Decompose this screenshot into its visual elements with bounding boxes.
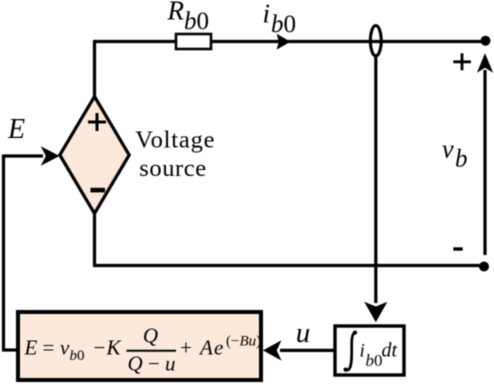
svg-text:dt: dt [382,340,398,362]
wire [93,264,484,267]
plus terminal [453,53,471,70]
voltage source U1 [60,97,129,214]
svg-text:e: e [214,336,223,360]
current probe ellipse [370,26,381,56]
svg-text:Q: Q [143,324,158,348]
u signal arrow [280,349,334,352]
junction node bottom right [479,262,489,272]
wire [2,348,18,351]
svg-text:source: source [139,155,207,182]
integrator input arrow [374,56,377,303]
wire [93,42,96,98]
svg-text:+: + [180,336,192,360]
resistor Rb0 [176,34,211,49]
svg-text:(−Bu): (−Bu) [226,334,261,350]
svg-text:b0: b0 [366,351,383,370]
plus mark [88,113,106,131]
svg-text:A: A [198,336,213,360]
integrator text [344,331,398,372]
junction node top right [481,36,491,46]
svg-text:u: u [296,317,311,349]
wire [93,40,176,43]
svg-text:Q − u: Q − u [127,352,175,376]
wire [93,213,96,266]
equation block [18,312,261,380]
svg-text:E: E [24,336,38,360]
svg-text:E: E [7,114,25,145]
svg-text:b0: b0 [70,348,85,364]
vb arrow [483,70,486,255]
wire [2,155,5,351]
current arrow ib0 [277,34,291,50]
wire E input [4,154,44,157]
svg-text:−: − [94,336,106,360]
svg-text:i: i [360,341,365,362]
svg-text:K: K [106,336,122,360]
wire [211,40,485,43]
minus mark [91,188,106,193]
svg-text:v: v [60,336,70,360]
svg-text:Voltage: Voltage [135,127,215,154]
minus terminal [453,247,462,250]
integrator block [335,326,404,375]
equation text [24,324,262,376]
svg-text:=: = [43,336,55,360]
